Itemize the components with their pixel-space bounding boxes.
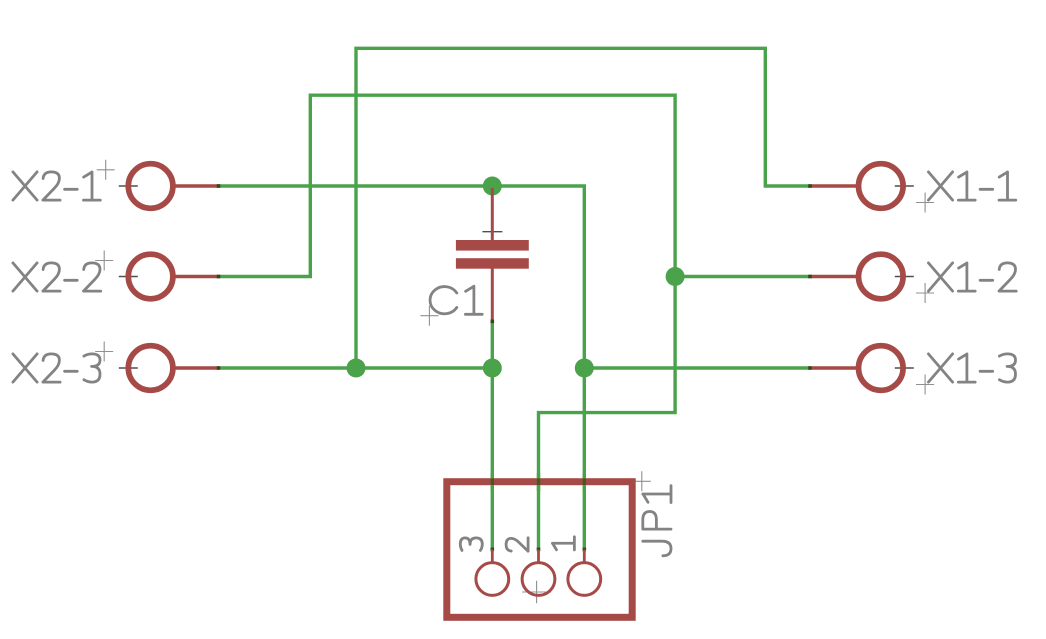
label X1-1 (928, 172, 1015, 200)
capacitor C1 top plate (456, 240, 529, 251)
origin cross label C1 (420, 306, 438, 326)
origin cross label X2-2 (95, 251, 113, 271)
origin cross label X1-1 (916, 193, 934, 213)
junction node N1 at C1 top (483, 177, 502, 196)
junction node N2 at X1-2 row (666, 267, 685, 286)
origin cross label X1-2 (916, 283, 934, 303)
pin circle JP1-1 (568, 563, 601, 596)
pin stub JP1-1 (583, 550, 586, 564)
origin cross part JP1 (522, 581, 551, 604)
pin stub JP1-2 (537, 550, 540, 564)
label X2-3 (13, 354, 100, 382)
wire net N2 branch: junction to X1-2 stub (675, 275, 810, 278)
pin stub X1-1 (810, 184, 858, 187)
pin number 1 of JP1 (552, 537, 574, 550)
wire overlap marks (217, 184, 221, 188)
wire net N1: X2-1 row to corner, down to JP1 pin1 (218, 186, 584, 550)
capacitor C1 bottom plate (456, 258, 529, 269)
pin stub X2-1 (174, 184, 219, 187)
origin cross label X1-3 (916, 375, 934, 395)
pin stub C1 top (491, 188, 494, 240)
label X2-1 (13, 172, 100, 200)
pin marker X1-1 pad (895, 180, 914, 193)
label X2-2 (13, 263, 101, 291)
pin number 2 of JP1 (506, 538, 528, 551)
pin stub X2-3 (174, 366, 219, 369)
pin marker X2-2 pad (119, 270, 138, 283)
label C1 (430, 286, 482, 314)
origin cross label JP1 (633, 471, 651, 491)
junction node N3 at JP1 pin3 column (483, 359, 502, 378)
wire net N3 branch: cap bottom through junction to JP1 pin3 (491, 321, 494, 550)
pad X1-2 (859, 254, 904, 299)
wire net N3 branch: junction up over top to X1-1 (356, 48, 810, 368)
pin stub X2-2 (174, 275, 219, 278)
origin cross label X2-3 (95, 342, 113, 362)
pin stub X1-3 (810, 366, 858, 369)
wire net N1 branch: junction to X1-3 stub (584, 366, 810, 369)
pin circle JP1-2 (522, 563, 555, 596)
pin circle JP1-3 (476, 563, 509, 596)
pin stub X1-2 (810, 275, 858, 278)
pin marker X2-3 pad (119, 362, 138, 375)
pad X1-3 (859, 346, 904, 391)
pin number 3 of JP1 (460, 538, 482, 551)
pin marker X2-1 pad (119, 180, 138, 193)
wire net N3: X2-3 row to junction (218, 366, 492, 369)
pin stub JP1-3 (491, 550, 494, 564)
origin cross label X2-1 (97, 160, 115, 180)
pin marker C1 top (482, 225, 502, 239)
connector JP1 box (447, 482, 632, 618)
junction node N1 at X1-3 row (575, 359, 594, 378)
label X1-3 (928, 354, 1015, 382)
pad X1-1 (859, 164, 904, 209)
pin marker X1-2 pad (895, 270, 914, 283)
label JP1 (643, 486, 671, 556)
label X1-2 (928, 263, 1016, 291)
wires crossing JP1 border (491, 473, 494, 491)
pin stub C1 bottom (491, 269, 494, 322)
pin marker X1-3 pad (895, 362, 914, 375)
pad X2-1 (128, 164, 173, 209)
pad X2-2 (128, 254, 173, 299)
wire net N2: X2-2 row up over to JP1 pin2 (218, 95, 675, 550)
pad X2-3 (128, 346, 173, 391)
junction node N3 left (347, 359, 366, 378)
